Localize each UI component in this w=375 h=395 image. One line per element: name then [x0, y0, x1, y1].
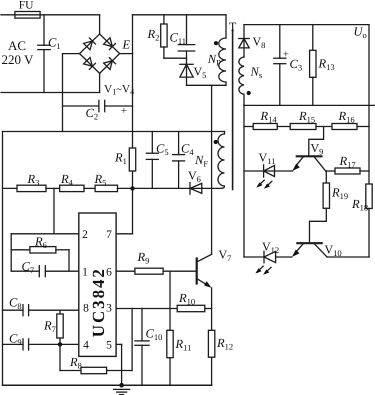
wire output top lead	[243, 25, 245, 39]
winding NF	[218, 132, 224, 189]
capacitor C4	[173, 132, 185, 189]
wire output right vertical	[368, 25, 370, 184]
rectifier bridge V1~V4	[80, 34, 120, 73]
wire V12 left	[244, 256, 264, 258]
resistor R12	[208, 330, 214, 385]
capacitor C3	[274, 25, 286, 106]
capacitor C8	[3, 305, 79, 316]
svg-text:8: 8	[83, 303, 89, 315]
wire V9 emitter to V11	[244, 170, 264, 172]
transistor V7	[197, 254, 212, 330]
wire bridge bottom lead	[99, 73, 101, 92]
diode V6	[190, 183, 221, 195]
node ground junction	[119, 383, 124, 388]
capacitor C7	[11, 266, 79, 277]
diode bottom-left (points to bottom vertex)	[84, 58, 96, 70]
resistor R4	[60, 185, 95, 191]
wire output top rail Uo	[244, 24, 369, 26]
wire AC line bottom	[1, 92, 100, 94]
wire top rail to transformer	[133, 14, 227, 16]
dot Np polarity	[214, 41, 218, 45]
svg-text:2: 2	[82, 229, 88, 241]
wire R15-R16	[316, 126, 332, 128]
wire switch node horizontal	[187, 84, 227, 86]
capacitor C9	[3, 339, 79, 350]
resistor R15	[290, 124, 316, 130]
capacitor C11	[178, 15, 194, 65]
wire pin6	[116, 270, 135, 272]
resistor R13	[310, 25, 316, 106]
wire pin3	[116, 308, 177, 310]
svg-text:4: 4	[83, 340, 89, 352]
transistor V10	[292, 243, 327, 257]
wire V10 collector to R18	[327, 256, 369, 258]
IC U1 UC3842	[79, 213, 116, 356]
wire primary ground top	[3, 131, 225, 133]
resistor R14	[244, 124, 277, 130]
dot Ns polarity	[247, 91, 251, 95]
wire node to V6	[133, 187, 191, 189]
LED V11	[256, 165, 292, 189]
resistor R3	[17, 185, 60, 191]
wire node E to main vertical	[120, 53, 133, 55]
wire pin2	[11, 233, 79, 235]
resistor R18	[366, 184, 372, 257]
dot NF polarity	[214, 140, 218, 144]
resistor R11	[167, 271, 173, 385]
capacitor C2	[63, 100, 133, 111]
wire output mid rail	[244, 104, 375, 106]
diode top-left (points to top vertex)	[84, 38, 96, 50]
svg-text:6: 6	[106, 267, 112, 279]
LED V12	[255, 251, 291, 275]
svg-text:220 V: 220 V	[2, 52, 35, 67]
ground	[114, 389, 130, 394]
capacitor C1	[38, 15, 50, 93]
resistor R17	[326, 168, 369, 174]
capacitor C10	[135, 309, 149, 386]
resistor R19	[310, 171, 330, 243]
wire bottom ground rail	[3, 384, 212, 386]
diode top-right (points to right vertex)	[104, 38, 116, 50]
wire R3 row left	[3, 187, 18, 189]
transistor V9	[292, 127, 325, 172]
svg-text:+: +	[283, 49, 289, 61]
wire switch node vertical to V7 collector	[211, 85, 213, 254]
fuse FU	[15, 12, 40, 19]
svg-text:FU: FU	[19, 0, 34, 11]
wire comp loop left	[10, 234, 12, 271]
capacitor C5	[146, 132, 158, 189]
resistor R1	[129, 148, 135, 188]
diode bottom-right (points to right vertex)	[104, 58, 116, 70]
svg-text:+: +	[121, 105, 127, 117]
wire R3-R4 junction down to pin2	[53, 188, 55, 233]
wire bridge negative to ground	[63, 54, 80, 132]
diode V8	[239, 39, 249, 58]
wire AC line top	[1, 14, 100, 16]
svg-text:7: 7	[106, 229, 112, 241]
resistor R5	[95, 185, 132, 191]
resistor R10	[177, 305, 211, 311]
resistor R6	[11, 247, 69, 272]
wire pin5 to ground	[116, 344, 122, 385]
wire primary ground left border	[2, 132, 4, 386]
resistor R7	[57, 310, 63, 344]
svg-text:5: 5	[106, 340, 112, 352]
svg-text:3: 3	[106, 303, 112, 315]
wire bridge top lead	[99, 15, 101, 34]
node R5 R1 pin7 junction	[130, 186, 134, 190]
resistor R2	[161, 15, 187, 58]
node pin4 R7 junction	[58, 342, 62, 346]
svg-text:1: 1	[82, 267, 88, 279]
svg-text:AC: AC	[8, 38, 26, 53]
svg-text:T: T	[229, 20, 237, 34]
wire main vertical E rail	[132, 15, 134, 148]
wire R14-R15	[277, 126, 290, 128]
resistor R16	[332, 124, 369, 130]
diode V5	[180, 64, 193, 85]
winding Np	[219, 15, 226, 86]
wire pin7	[116, 188, 132, 233]
wire output left vertical	[243, 105, 245, 257]
transformer core T	[232, 30, 234, 190]
resistor R8	[60, 309, 132, 374]
winding Ns	[239, 57, 244, 105]
svg-text:E: E	[122, 38, 131, 52]
resistor R9	[135, 268, 197, 274]
